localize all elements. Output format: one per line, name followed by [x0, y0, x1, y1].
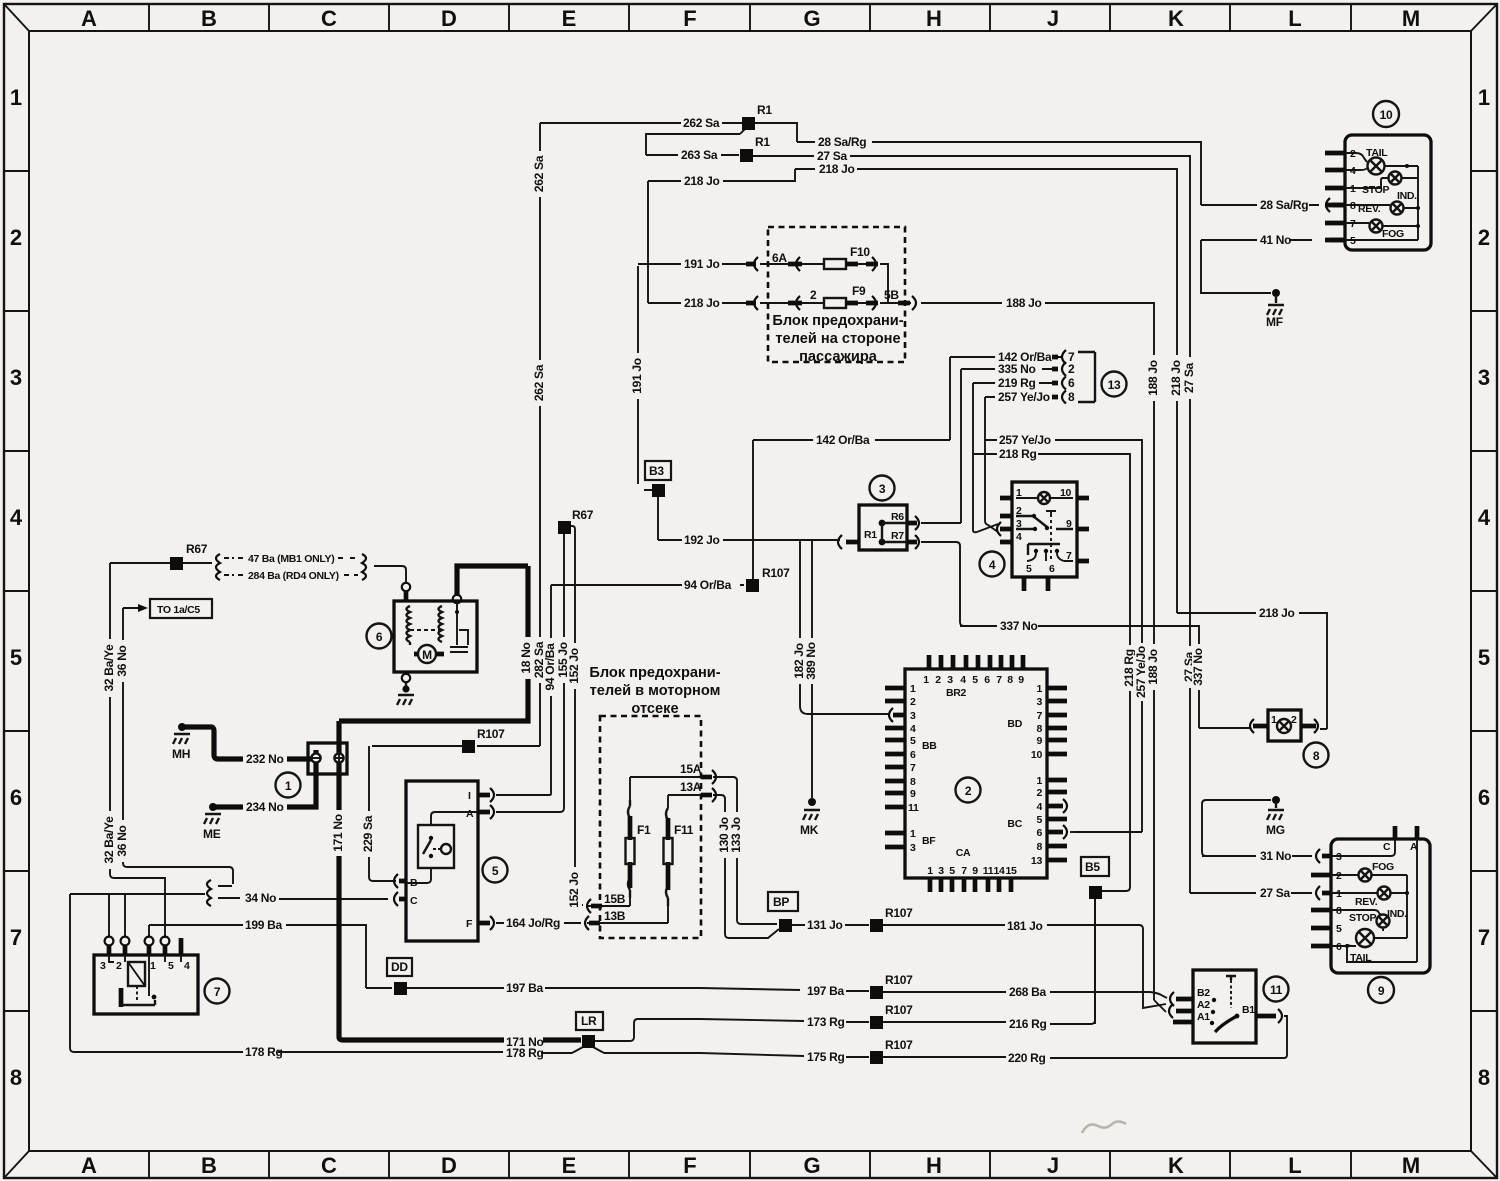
svg-text:197 Ba: 197 Ba [807, 984, 845, 998]
ground MK [808, 798, 816, 806]
svg-text:1: 1 [1036, 775, 1042, 787]
wire 263 Sa / 27 Sa row [646, 126, 1312, 893]
svg-text:36 No: 36 No [115, 645, 129, 676]
svg-text:188 Jo: 188 Jo [1146, 649, 1160, 685]
svg-text:191 Jo: 191 Jo [684, 257, 720, 271]
svg-text:7: 7 [1350, 218, 1356, 230]
svg-text:IND.: IND. [1387, 908, 1407, 920]
svg-text:K: K [1168, 6, 1184, 31]
svg-text:MK: MK [800, 823, 819, 837]
connector R107 (94 Or/Ba) [746, 579, 759, 592]
svg-text:229 Sa: 229 Sa [361, 815, 375, 852]
svg-text:8: 8 [1313, 749, 1320, 763]
svg-text:3: 3 [100, 960, 106, 972]
svg-text:STOP: STOP [1362, 184, 1389, 196]
svg-text:8: 8 [10, 1065, 22, 1090]
wire 164 Jo/Rg row [496, 922, 581, 924]
svg-text:337 No: 337 No [1191, 648, 1205, 686]
svg-text:5: 5 [10, 645, 22, 670]
wire LR splice diagonals [572, 1047, 604, 1053]
svg-text:H: H [926, 1153, 942, 1178]
node 27 Sa label mid [1182, 646, 1197, 688]
svg-text:218 Jo: 218 Jo [1259, 606, 1295, 620]
svg-text:FOG: FOG [1372, 861, 1394, 873]
svg-text:47 Ba (MB1 ONLY): 47 Ba (MB1 ONLY) [248, 553, 334, 565]
svg-text:телей на стороне: телей на стороне [775, 331, 900, 347]
svg-text:11: 11 [983, 865, 994, 877]
svg-text:6: 6 [1068, 376, 1075, 390]
svg-text:262 Sa: 262 Sa [532, 364, 546, 401]
node 282 Sa vert label [532, 637, 547, 683]
svg-text:E: E [562, 1153, 577, 1178]
connector LR [576, 1012, 603, 1030]
svg-text:8: 8 [1036, 841, 1042, 853]
node 152 Jo label 2 [567, 867, 582, 913]
svg-text:9: 9 [972, 865, 978, 877]
wire 94 Or/Ba row and vertical to comp5 I [496, 585, 744, 795]
svg-text:2: 2 [116, 960, 122, 972]
svg-text:R1: R1 [757, 103, 772, 117]
svg-text:178 Rg: 178 Rg [506, 1046, 544, 1060]
svg-text:152 Jo: 152 Jo [567, 648, 581, 684]
fuse F10 [824, 259, 846, 269]
component 3 relay R1/R6/R7 [859, 505, 907, 550]
svg-text:9: 9 [1066, 518, 1072, 530]
svg-text:15: 15 [1005, 865, 1017, 877]
connector B5 [1081, 857, 1109, 876]
svg-text:28 Sa/Rg: 28 Sa/Rg [1260, 198, 1308, 212]
wire 197 Ba row [406, 988, 1167, 998]
ground MH [178, 723, 186, 731]
component 1 battery connector [308, 743, 347, 774]
connector 13B [589, 921, 600, 926]
svg-text:2: 2 [1068, 362, 1075, 376]
component 10 pin labels [1350, 147, 1417, 247]
svg-text:15B: 15B [604, 892, 626, 906]
wire 182 Jo vertical to comp2 pin3 [800, 541, 889, 714]
svg-text:13B: 13B [604, 909, 626, 923]
svg-text:5: 5 [1036, 814, 1042, 826]
svg-text:181 Jo: 181 Jo [1007, 919, 1043, 933]
svg-text:5: 5 [1350, 235, 1356, 247]
node 257 Ye/Jo label [1134, 643, 1149, 701]
component 6 alternator/regulator [394, 601, 477, 672]
svg-text:31 No: 31 No [1260, 849, 1291, 863]
svg-text:1: 1 [10, 85, 22, 110]
svg-text:1: 1 [1478, 85, 1490, 110]
node 32 Ba/Ye label [102, 639, 117, 697]
svg-text:4: 4 [1478, 505, 1491, 530]
svg-text:8: 8 [910, 776, 916, 788]
svg-text:32 Ba/Ye: 32 Ba/Ye [102, 644, 116, 692]
svg-text:14: 14 [993, 865, 1005, 877]
svg-text:7: 7 [996, 674, 1002, 686]
node 155 Jo label [556, 637, 571, 683]
node 18 No label [519, 637, 534, 679]
wire 13A row [668, 795, 779, 938]
svg-text:REV.: REV. [1358, 203, 1381, 215]
svg-text:C: C [321, 6, 337, 31]
box TO 1a/C5 [150, 599, 212, 618]
node 133 Jo label [729, 812, 744, 858]
svg-text:1: 1 [1271, 714, 1277, 726]
wire 220 Rg to comp11 B1 [1284, 1016, 1287, 1020]
svg-text:B5: B5 [1085, 860, 1100, 874]
connector DD [387, 958, 412, 976]
component 4 hazard switch [1012, 482, 1077, 577]
svg-text:4: 4 [960, 674, 966, 686]
svg-text:142 Or/Ba: 142 Or/Ba [816, 433, 870, 447]
connector 6A [754, 257, 800, 271]
node 94 Or/Ba label [543, 638, 558, 696]
svg-text:2: 2 [1016, 505, 1022, 517]
component 13 circle [1102, 372, 1127, 397]
svg-text:B: B [201, 6, 217, 31]
connector R67 (mid, at E5) [558, 521, 571, 534]
svg-text:197 Ba: 197 Ba [506, 981, 544, 995]
svg-text:C: C [1383, 841, 1391, 853]
svg-text:L: L [1288, 6, 1301, 31]
svg-text:M: M [422, 648, 432, 662]
svg-text:3: 3 [1336, 851, 1342, 863]
svg-text:J: J [1047, 1153, 1059, 1178]
svg-text:5: 5 [1478, 645, 1490, 670]
wire comp7 pin3 pin2 risers [109, 894, 125, 936]
svg-text:337 No: 337 No [1000, 619, 1038, 633]
svg-text:9: 9 [910, 788, 916, 800]
svg-text:5B: 5B [884, 288, 899, 302]
svg-text:1: 1 [1036, 683, 1042, 695]
node 262 Sa vert label 2 [532, 360, 547, 406]
svg-text:4: 4 [1016, 531, 1022, 543]
svg-text:BP: BP [773, 895, 789, 909]
svg-text:L: L [1288, 1153, 1301, 1178]
wire 257 Ye/Jo second row to comp2 BC6 [985, 440, 1142, 832]
svg-text:B: B [410, 877, 418, 889]
pen mark artifact [1082, 1122, 1126, 1134]
svg-text:3: 3 [10, 365, 22, 390]
svg-text:BD: BD [1007, 718, 1022, 730]
svg-text:32 Ba/Ye: 32 Ba/Ye [102, 816, 116, 864]
svg-text:3: 3 [910, 842, 916, 854]
connector R107 (131 Jo) [870, 919, 883, 932]
svg-text:6: 6 [10, 785, 22, 810]
svg-text:6: 6 [376, 630, 383, 644]
svg-text:94 Or/Ba: 94 Or/Ba [543, 643, 557, 691]
engine fuse box (dashed) [600, 716, 701, 938]
svg-text:R107: R107 [885, 1003, 913, 1017]
svg-text:232 No: 232 No [246, 752, 284, 766]
connector 15B [591, 904, 602, 909]
svg-text:5: 5 [949, 865, 955, 877]
svg-text:192 Jo: 192 Jo [684, 533, 720, 547]
wire 155 Jo vertical to comp5 A [496, 533, 564, 812]
svg-text:BB: BB [922, 740, 937, 752]
ground MF [1272, 289, 1280, 297]
fuse F1 [628, 800, 630, 890]
svg-text:BF: BF [922, 835, 936, 847]
wire 257 Ye/Jo row [985, 397, 1058, 532]
svg-text:6: 6 [984, 674, 990, 686]
node 262 Sa vert label 1 [532, 151, 547, 197]
node 36 No label 2 [115, 820, 130, 862]
component 4 pin labels [1016, 487, 1072, 575]
svg-text:8: 8 [1336, 905, 1342, 917]
svg-text:27 Sa: 27 Sa [817, 149, 847, 163]
svg-text:7: 7 [961, 865, 967, 877]
connector R1 (262 Sa) [742, 117, 755, 130]
svg-text:15A: 15A [680, 762, 702, 776]
wire 191 Jo row [638, 264, 888, 303]
svg-text:8: 8 [1036, 723, 1042, 735]
svg-text:262 Sa: 262 Sa [532, 155, 546, 192]
wire 219 Rg row [973, 383, 1058, 532]
svg-text:1: 1 [1016, 487, 1022, 499]
wire 335 No row [961, 369, 1058, 523]
connector R107 (173 Rg) [870, 1016, 883, 1029]
svg-text:152 Jo: 152 Jo [567, 872, 581, 908]
svg-text:J: J [1047, 6, 1059, 31]
svg-text:R107: R107 [885, 973, 913, 987]
svg-text:7: 7 [910, 762, 916, 774]
svg-text:7: 7 [1036, 710, 1042, 722]
svg-text:2: 2 [810, 288, 817, 302]
svg-text:R67: R67 [572, 508, 594, 522]
wire 192 Jo row [658, 539, 840, 541]
node 218 Jo label top [1169, 355, 1184, 401]
svg-text:R107: R107 [885, 906, 913, 920]
svg-text:TO 1a/C5: TO 1a/C5 [157, 604, 200, 616]
wire comp3 R7 out / 337 No row [921, 542, 1250, 728]
connector 2 / fuse F9 [754, 296, 800, 310]
svg-text:284 Ba (RD4 ONLY): 284 Ba (RD4 ONLY) [248, 570, 339, 582]
svg-text:335 No: 335 No [998, 362, 1036, 376]
fuse box passenger side (dashed) [768, 227, 905, 362]
svg-text:1: 1 [910, 828, 916, 840]
node 27 Sa label top [1182, 357, 1197, 399]
wire B3 drop [638, 266, 658, 540]
svg-text:10: 10 [1031, 749, 1043, 761]
svg-text:8: 8 [1478, 1065, 1490, 1090]
svg-text:7: 7 [1066, 550, 1072, 562]
svg-text:MH: MH [172, 747, 190, 761]
connector 15A [701, 775, 712, 780]
svg-text:G: G [803, 6, 820, 31]
component 11 switch [1193, 970, 1256, 1043]
component 7 relay [94, 955, 198, 1014]
svg-text:Блок предохрани-: Блок предохрани- [772, 313, 903, 329]
svg-text:FOG: FOG [1382, 228, 1404, 240]
svg-text:BR2: BR2 [946, 687, 967, 699]
svg-text:5: 5 [1336, 923, 1342, 935]
component 11 pin labels [1197, 987, 1255, 1023]
svg-text:173 Rg: 173 Rg [807, 1015, 845, 1029]
svg-text:A: A [81, 1153, 97, 1178]
wire 218 Rg row to B5 [973, 454, 1130, 891]
svg-text:13: 13 [1031, 855, 1043, 867]
node 171 No label [331, 810, 346, 856]
svg-text:2: 2 [1291, 714, 1297, 726]
svg-text:262 Sa: 262 Sa [683, 116, 720, 130]
svg-text:D: D [441, 1153, 457, 1178]
component 2 pin labels [908, 674, 1042, 877]
wire B5 net [1094, 899, 1096, 1024]
svg-text:4: 4 [910, 723, 916, 735]
svg-text:8: 8 [1350, 200, 1356, 212]
svg-text:3: 3 [938, 865, 944, 877]
svg-text:5: 5 [910, 735, 916, 747]
svg-text:H: H [926, 6, 942, 31]
svg-text:216 Rg: 216 Rg [1009, 1017, 1047, 1031]
svg-text:M: M [1402, 1153, 1420, 1178]
svg-text:5: 5 [1026, 563, 1032, 575]
svg-text:18 No: 18 No [519, 642, 533, 673]
connector BP [768, 892, 798, 911]
svg-text:219 Rg: 219 Rg [998, 376, 1036, 390]
wire 15B row [587, 898, 630, 906]
rotated wire labels [102, 151, 1206, 913]
wire 142 Or/Ba rows [753, 357, 1062, 581]
node 218 Rg label [1122, 645, 1137, 691]
connector 13 bracket [1062, 350, 1066, 404]
svg-text:1: 1 [1350, 183, 1356, 195]
wire 131 Jo / 181 Jo row [791, 925, 1166, 1008]
svg-text:B1: B1 [1242, 1004, 1255, 1016]
svg-text:D: D [441, 6, 457, 31]
svg-text:E: E [562, 6, 577, 31]
svg-text:5: 5 [492, 864, 499, 878]
svg-text:K: K [1168, 1153, 1184, 1178]
svg-text:13: 13 [1108, 378, 1121, 392]
ground under component 6 [397, 695, 414, 705]
svg-text:6: 6 [910, 749, 916, 761]
svg-text:9: 9 [1378, 984, 1385, 998]
svg-text:7: 7 [214, 985, 221, 999]
svg-text:6: 6 [1478, 785, 1490, 810]
svg-text:10: 10 [1380, 108, 1393, 122]
svg-text:B: B [201, 1153, 217, 1178]
svg-text:234 No: 234 No [246, 800, 284, 814]
component 5 switch [406, 781, 478, 941]
wire 389 No vertical to MK [811, 541, 813, 798]
svg-text:218 Jo: 218 Jo [819, 162, 855, 176]
svg-text:3: 3 [1036, 696, 1042, 708]
node 389 No label [804, 638, 819, 684]
svg-text:9: 9 [1018, 674, 1024, 686]
wire comp3 R6 out to 335 No [921, 522, 961, 524]
wire 232 No thick (MH to comp1) [184, 727, 312, 759]
wire 18 No thick [339, 566, 528, 721]
wire comp8 pin2 to 218 Jo [1322, 728, 1327, 730]
svg-text:257 Ye/Jo: 257 Ye/Jo [998, 390, 1050, 404]
svg-text:6: 6 [1049, 563, 1055, 575]
node 188 Jo label top [1146, 355, 1161, 401]
svg-text:11: 11 [908, 802, 919, 814]
svg-text:F9: F9 [852, 284, 866, 298]
svg-text:3: 3 [947, 674, 953, 686]
svg-text:1: 1 [1336, 888, 1342, 900]
svg-text:218 Jo: 218 Jo [684, 296, 720, 310]
component 9 lamp cluster [1331, 839, 1430, 973]
svg-text:2: 2 [935, 674, 941, 686]
svg-text:4: 4 [1036, 801, 1042, 813]
svg-text:F10: F10 [850, 245, 870, 259]
svg-text:R107: R107 [762, 566, 790, 580]
svg-text:175 Rg: 175 Rg [807, 1050, 845, 1064]
svg-text:34 No: 34 No [245, 891, 276, 905]
svg-text:1: 1 [150, 960, 156, 972]
svg-text:36 No: 36 No [115, 825, 129, 856]
svg-text:телей в моторном: телей в моторном [590, 683, 721, 699]
svg-text:27 Sa: 27 Sa [1182, 362, 1196, 392]
svg-text:6: 6 [1036, 827, 1042, 839]
wire 188 Jo X cross at comp11 [1154, 1000, 1166, 1012]
svg-text:2: 2 [1336, 870, 1342, 882]
svg-text:131 Jo: 131 Jo [807, 918, 843, 932]
svg-text:F1: F1 [637, 823, 651, 837]
wire 199 Ba row to DD [149, 925, 392, 988]
connector B3 [645, 461, 671, 480]
connector R107 (197 Ba) [870, 986, 883, 999]
svg-text:R6: R6 [891, 511, 904, 523]
svg-text:DD: DD [391, 960, 408, 974]
svg-text:389 No: 389 No [804, 642, 818, 680]
svg-text:F: F [683, 6, 696, 31]
svg-text:A: A [466, 808, 474, 820]
wire 34 No row [70, 886, 388, 1048]
node 130 Jo label [717, 812, 732, 858]
ground ME [209, 803, 217, 811]
svg-text:27 Sa: 27 Sa [1260, 886, 1290, 900]
svg-text:Блок предохрани-: Блок предохрани- [589, 665, 720, 681]
connector R1 (263 Sa) [740, 149, 753, 162]
fuse F9 [824, 298, 846, 308]
svg-text:188 Jo: 188 Jo [1006, 296, 1042, 310]
component 7 pin labels [100, 960, 190, 972]
svg-text:218 Rg: 218 Rg [999, 447, 1037, 461]
node 182 Jo label [792, 638, 807, 684]
connector R107 (282 Sa / comp5 B) [462, 740, 475, 753]
svg-text:пассажира: пассажира [799, 349, 878, 365]
harness brace right [362, 554, 366, 580]
svg-text:F: F [683, 1153, 696, 1178]
svg-text:2: 2 [965, 784, 972, 798]
text fuse box passenger [772, 313, 903, 365]
svg-text:7: 7 [10, 925, 22, 950]
svg-text:C: C [321, 1153, 337, 1178]
svg-text:4: 4 [10, 505, 23, 530]
wire 32 Ba/Ye vertical [110, 563, 165, 938]
text fuse box engine [589, 665, 720, 717]
component 3 pin labels [864, 511, 904, 542]
svg-text:ME: ME [203, 827, 221, 841]
svg-text:257 Ye/Jo: 257 Ye/Jo [999, 433, 1051, 447]
wire 13B row [587, 906, 668, 923]
svg-text:2: 2 [10, 225, 22, 250]
svg-text:F: F [466, 918, 473, 930]
svg-text:A1: A1 [1197, 1011, 1210, 1023]
svg-text:R7: R7 [891, 530, 904, 542]
svg-text:MF: MF [1266, 315, 1283, 329]
wire 152 Jo vertical to 15B [575, 529, 583, 905]
svg-text:4: 4 [1350, 165, 1356, 177]
svg-text:171 No: 171 No [331, 814, 345, 852]
svg-text:3: 3 [910, 710, 916, 722]
node 229 Sa label [361, 811, 376, 857]
svg-text:3: 3 [879, 482, 886, 496]
svg-text:1: 1 [923, 674, 929, 686]
svg-text:STOP: STOP [1349, 912, 1376, 924]
